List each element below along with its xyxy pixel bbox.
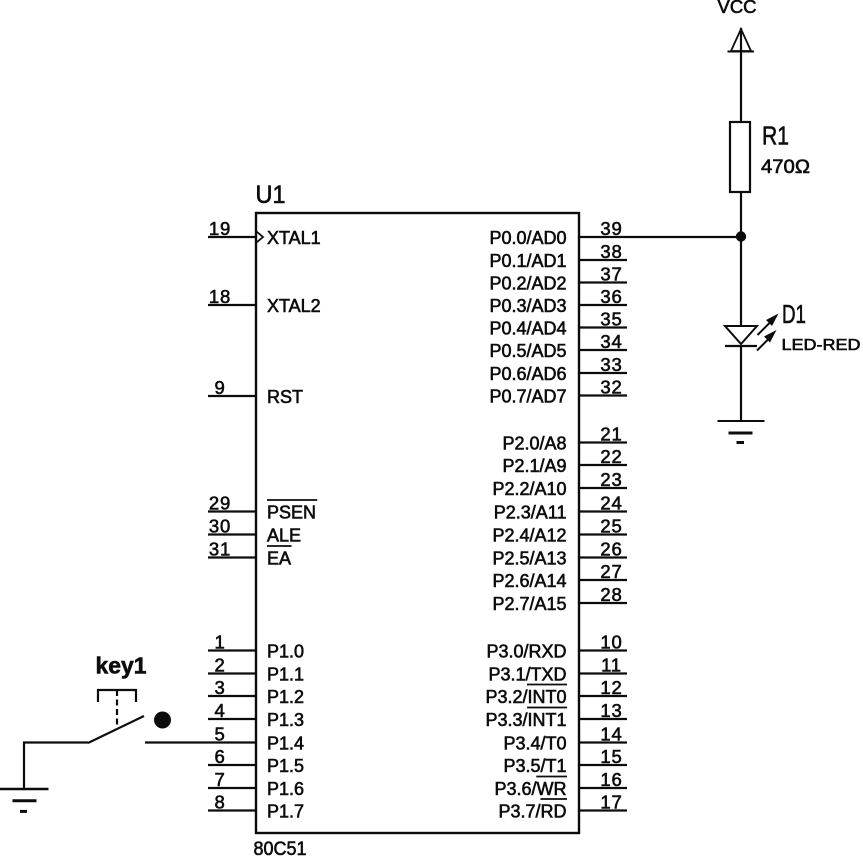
pin 28 label P2.7/A15 [492, 594, 566, 614]
svg-text:35: 35 [600, 309, 622, 330]
pin 17 P3.7/RD wire [579, 809, 627, 811]
svg-text:470Ω: 470Ω [761, 157, 810, 178]
wire D1 to ground [740, 346, 742, 420]
pin 14 P3.4/T0 wire [579, 741, 627, 743]
svg-text:2: 2 [214, 655, 225, 676]
svg-text:P0.3/AD3: P0.3/AD3 [489, 296, 566, 316]
IC U1 body 80C51 [256, 213, 579, 833]
pin 27 label P2.6/A14 [492, 571, 566, 591]
pin 30 ALE wire [208, 533, 256, 535]
pin 28 P2.7/A15 wire [579, 602, 627, 604]
pin 21 label P2.0/A8 [502, 434, 566, 454]
svg-text:6: 6 [214, 746, 225, 767]
wire VCC to R1 [740, 28, 742, 122]
switch key1 plunger dashed [116, 690, 118, 727]
pin 9 RST wire [208, 395, 256, 397]
svg-text:1: 1 [214, 632, 225, 653]
pin 7 P1.6 wire [208, 787, 256, 789]
svg-text:P3.5/T1: P3.5/T1 [503, 756, 566, 776]
pin 21 P2.0/A8 wire [579, 441, 627, 443]
pin 29 label PSEN [267, 500, 317, 523]
pin 12 P3.2/INT0 wire [579, 695, 627, 697]
pin 35 label P0.4/AD4 [489, 319, 566, 339]
pin 4 label P1.3 [267, 710, 304, 730]
svg-text:P3.4/T0: P3.4/T0 [503, 734, 566, 754]
svg-text:LED-RED: LED-RED [782, 337, 861, 354]
svg-text:15: 15 [600, 746, 622, 767]
pin 10 P3.0/RXD wire [579, 649, 627, 651]
pin 37 label P0.2/AD2 [489, 274, 566, 294]
pin 11 label P3.1/TXD [488, 665, 566, 685]
svg-text:P1.6: P1.6 [267, 779, 304, 799]
svg-text:P0.7/AD7: P0.7/AD7 [489, 387, 566, 407]
pin 36 P0.3/AD3 wire [579, 304, 627, 306]
diode D1 LED-RED [725, 299, 861, 354]
wire key1 left to ground riser [24, 743, 88, 790]
svg-text:XTAL1: XTAL1 [267, 228, 321, 248]
pin 23 P2.2/A10 wire [579, 487, 627, 489]
switch key1 lever [88, 716, 144, 743]
pin 13 label P3.3/INT1 [485, 708, 567, 731]
pin 25 P2.4/A12 wire [579, 533, 627, 535]
pin 7 label P1.6 [267, 779, 304, 799]
node A junction dot [736, 231, 746, 241]
svg-text:19: 19 [209, 218, 231, 239]
svg-text:EA: EA [267, 549, 291, 569]
ground at key1 [0, 789, 49, 811]
svg-text:P3.6/WR: P3.6/WR [494, 779, 566, 799]
svg-text:P0.2/AD2: P0.2/AD2 [489, 274, 566, 294]
svg-text:P2.1/A9: P2.1/A9 [502, 456, 566, 476]
wire R1 to node A [740, 192, 742, 237]
svg-text:P1.7: P1.7 [267, 802, 304, 822]
svg-text:27: 27 [600, 561, 622, 582]
pin 22 P2.1/A9 wire [579, 464, 627, 466]
power VCC [718, 0, 757, 52]
pin 29 PSEN wire [208, 510, 256, 512]
pin 3 label P1.2 [267, 687, 304, 707]
resistor R1 [730, 121, 810, 193]
svg-text:14: 14 [600, 724, 622, 745]
svg-text:5: 5 [214, 724, 225, 745]
switch key1 contact dot [154, 712, 171, 729]
svg-text:P1.0: P1.0 [267, 642, 304, 662]
svg-text:P2.0/A8: P2.0/A8 [502, 434, 566, 454]
svg-text:P0.5/AD5: P0.5/AD5 [489, 341, 566, 361]
wire node A to D1 [740, 237, 742, 326]
svg-text:P3.2/INT0: P3.2/INT0 [485, 687, 566, 707]
pin 4 P1.3 wire [208, 718, 256, 720]
svg-text:D1: D1 [782, 299, 806, 329]
pin 32 label P0.7/AD7 [489, 387, 566, 407]
svg-text:XTAL2: XTAL2 [267, 296, 321, 316]
pin 18 XTAL2 wire [208, 304, 256, 306]
pin 27 P2.6/A14 wire [579, 579, 627, 581]
svg-text:P2.4/A12: P2.4/A12 [492, 526, 566, 546]
svg-text:36: 36 [600, 286, 622, 307]
svg-text:29: 29 [209, 493, 231, 514]
svg-text:31: 31 [209, 539, 231, 560]
svg-text:VCC: VCC [718, 0, 757, 17]
pin 15 P3.5/T1 wire [579, 764, 627, 766]
svg-text:P3.7/RD: P3.7/RD [498, 802, 566, 822]
pin 8 P1.7 wire [208, 809, 256, 811]
pin 32 P0.7/AD7 wire [579, 394, 627, 396]
svg-text:ALE: ALE [267, 526, 301, 546]
pin 25 label P2.4/A12 [492, 526, 566, 546]
svg-text:P1.4: P1.4 [267, 734, 304, 754]
svg-text:PSEN: PSEN [267, 503, 316, 523]
svg-text:RST: RST [267, 387, 303, 407]
pin 24 P2.3/A11 wire [579, 510, 627, 512]
svg-text:24: 24 [600, 493, 622, 514]
pin 22 label P2.1/A9 [502, 456, 566, 476]
svg-text:P0.6/AD6: P0.6/AD6 [489, 364, 566, 384]
pin 26 P2.5/A13 wire [579, 556, 627, 558]
svg-text:P1.1: P1.1 [267, 665, 304, 685]
svg-text:11: 11 [601, 655, 622, 676]
pin 37 P0.2/AD2 wire [579, 281, 627, 283]
pin 6 label P1.5 [267, 756, 304, 776]
pin 5 P1.4 wire [145, 741, 256, 743]
pin 33 P0.6/AD6 wire [579, 372, 627, 374]
svg-text:18: 18 [209, 286, 231, 307]
svg-text:17: 17 [600, 792, 622, 813]
svg-text:13: 13 [600, 700, 622, 721]
pin 19 XTAL1 wire [208, 236, 256, 238]
svg-text:16: 16 [600, 769, 622, 790]
svg-text:32: 32 [600, 377, 622, 398]
pin 1 label P1.0 [267, 642, 304, 662]
pin 39 label P0.0/AD0 [489, 228, 566, 248]
svg-text:4: 4 [214, 700, 225, 721]
pin 14 label P3.4/T0 [503, 734, 566, 754]
svg-text:9: 9 [214, 377, 225, 398]
pin 10 label P3.0/RXD [486, 642, 566, 662]
pin 11 P3.1/TXD wire [579, 672, 627, 674]
pin 36 label P0.3/AD3 [489, 296, 566, 316]
pin 12 label P3.2/INT0 [485, 685, 567, 708]
pin 38 label P0.1/AD1 [489, 251, 566, 271]
svg-text:7: 7 [214, 769, 225, 790]
pin 5 label P1.4 [267, 734, 304, 754]
svg-text:23: 23 [600, 469, 622, 490]
svg-text:80C51: 80C51 [254, 839, 307, 856]
svg-text:39: 39 [600, 218, 622, 239]
pin 35 P0.4/AD4 wire [579, 326, 627, 328]
pin 38 P0.1/AD1 wire [579, 259, 627, 261]
svg-text:3: 3 [214, 677, 225, 698]
pin 6 P1.5 wire [208, 764, 256, 766]
svg-text:28: 28 [600, 584, 622, 605]
svg-text:P1.5: P1.5 [267, 756, 304, 776]
wire pin39 to node A [579, 236, 741, 238]
svg-text:P1.2: P1.2 [267, 687, 304, 707]
svg-text:8: 8 [214, 792, 225, 813]
svg-text:P0.0/AD0: P0.0/AD0 [489, 228, 566, 248]
pin 17 label P3.7/RD [498, 799, 567, 822]
pin 23 label P2.2/A10 [492, 479, 566, 499]
pin 33 label P0.6/AD6 [489, 364, 566, 384]
pin 8 label P1.7 [267, 802, 304, 822]
svg-text:U1: U1 [256, 181, 286, 209]
svg-text:30: 30 [209, 516, 231, 537]
svg-text:P2.3/A11: P2.3/A11 [494, 503, 567, 523]
svg-text:P2.2/A10: P2.2/A10 [492, 479, 566, 499]
svg-text:P2.5/A13: P2.5/A13 [492, 549, 566, 569]
svg-text:38: 38 [600, 241, 622, 262]
pin 13 P3.3/INT1 wire [579, 718, 627, 720]
pin 34 P0.5/AD5 wire [579, 349, 627, 351]
pin 16 label P3.6/WR [494, 777, 567, 800]
pin 31 label EA [267, 546, 292, 569]
svg-text:P3.0/RXD: P3.0/RXD [486, 642, 566, 662]
pin 16 P3.6/WR wire [579, 787, 627, 789]
pin 19 clock input mark [257, 232, 264, 243]
svg-text:33: 33 [600, 354, 622, 375]
pin 2 P1.1 wire [208, 672, 256, 674]
svg-text:P3.1/TXD: P3.1/TXD [488, 665, 566, 685]
pin 15 label P3.5/T1 [503, 756, 566, 776]
pin 19 label XTAL1 [267, 228, 321, 248]
ground under D1 [718, 421, 765, 443]
pin 9 label RST [267, 387, 303, 407]
svg-text:P3.3/INT1: P3.3/INT1 [485, 710, 566, 730]
svg-text:37: 37 [600, 264, 622, 285]
svg-text:21: 21 [600, 424, 622, 445]
pin 26 label P2.5/A13 [492, 549, 566, 569]
svg-text:10: 10 [600, 632, 622, 653]
pin 1 P1.0 wire [208, 649, 256, 651]
svg-text:P2.7/A15: P2.7/A15 [492, 594, 566, 614]
svg-text:P1.3: P1.3 [267, 710, 304, 730]
svg-text:key1: key1 [96, 653, 147, 679]
svg-text:P0.4/AD4: P0.4/AD4 [489, 319, 566, 339]
pin 34 label P0.5/AD5 [489, 341, 566, 361]
pin 24 label P2.3/A11 [494, 503, 567, 523]
svg-text:26: 26 [600, 539, 622, 560]
svg-text:22: 22 [600, 446, 622, 467]
svg-text:25: 25 [600, 516, 622, 537]
svg-text:34: 34 [600, 331, 622, 352]
pin 3 P1.2 wire [208, 695, 256, 697]
pin 31 EA wire [208, 556, 256, 558]
svg-text:12: 12 [600, 677, 622, 698]
svg-text:P0.1/AD1: P0.1/AD1 [489, 251, 566, 271]
pin 30 label ALE [267, 526, 301, 546]
svg-text:P2.6/A14: P2.6/A14 [492, 571, 566, 591]
pin 2 label P1.1 [267, 665, 304, 685]
pin 18 label XTAL2 [267, 296, 321, 316]
svg-text:R1: R1 [762, 121, 789, 151]
switch key1 actuator bracket [98, 690, 136, 702]
